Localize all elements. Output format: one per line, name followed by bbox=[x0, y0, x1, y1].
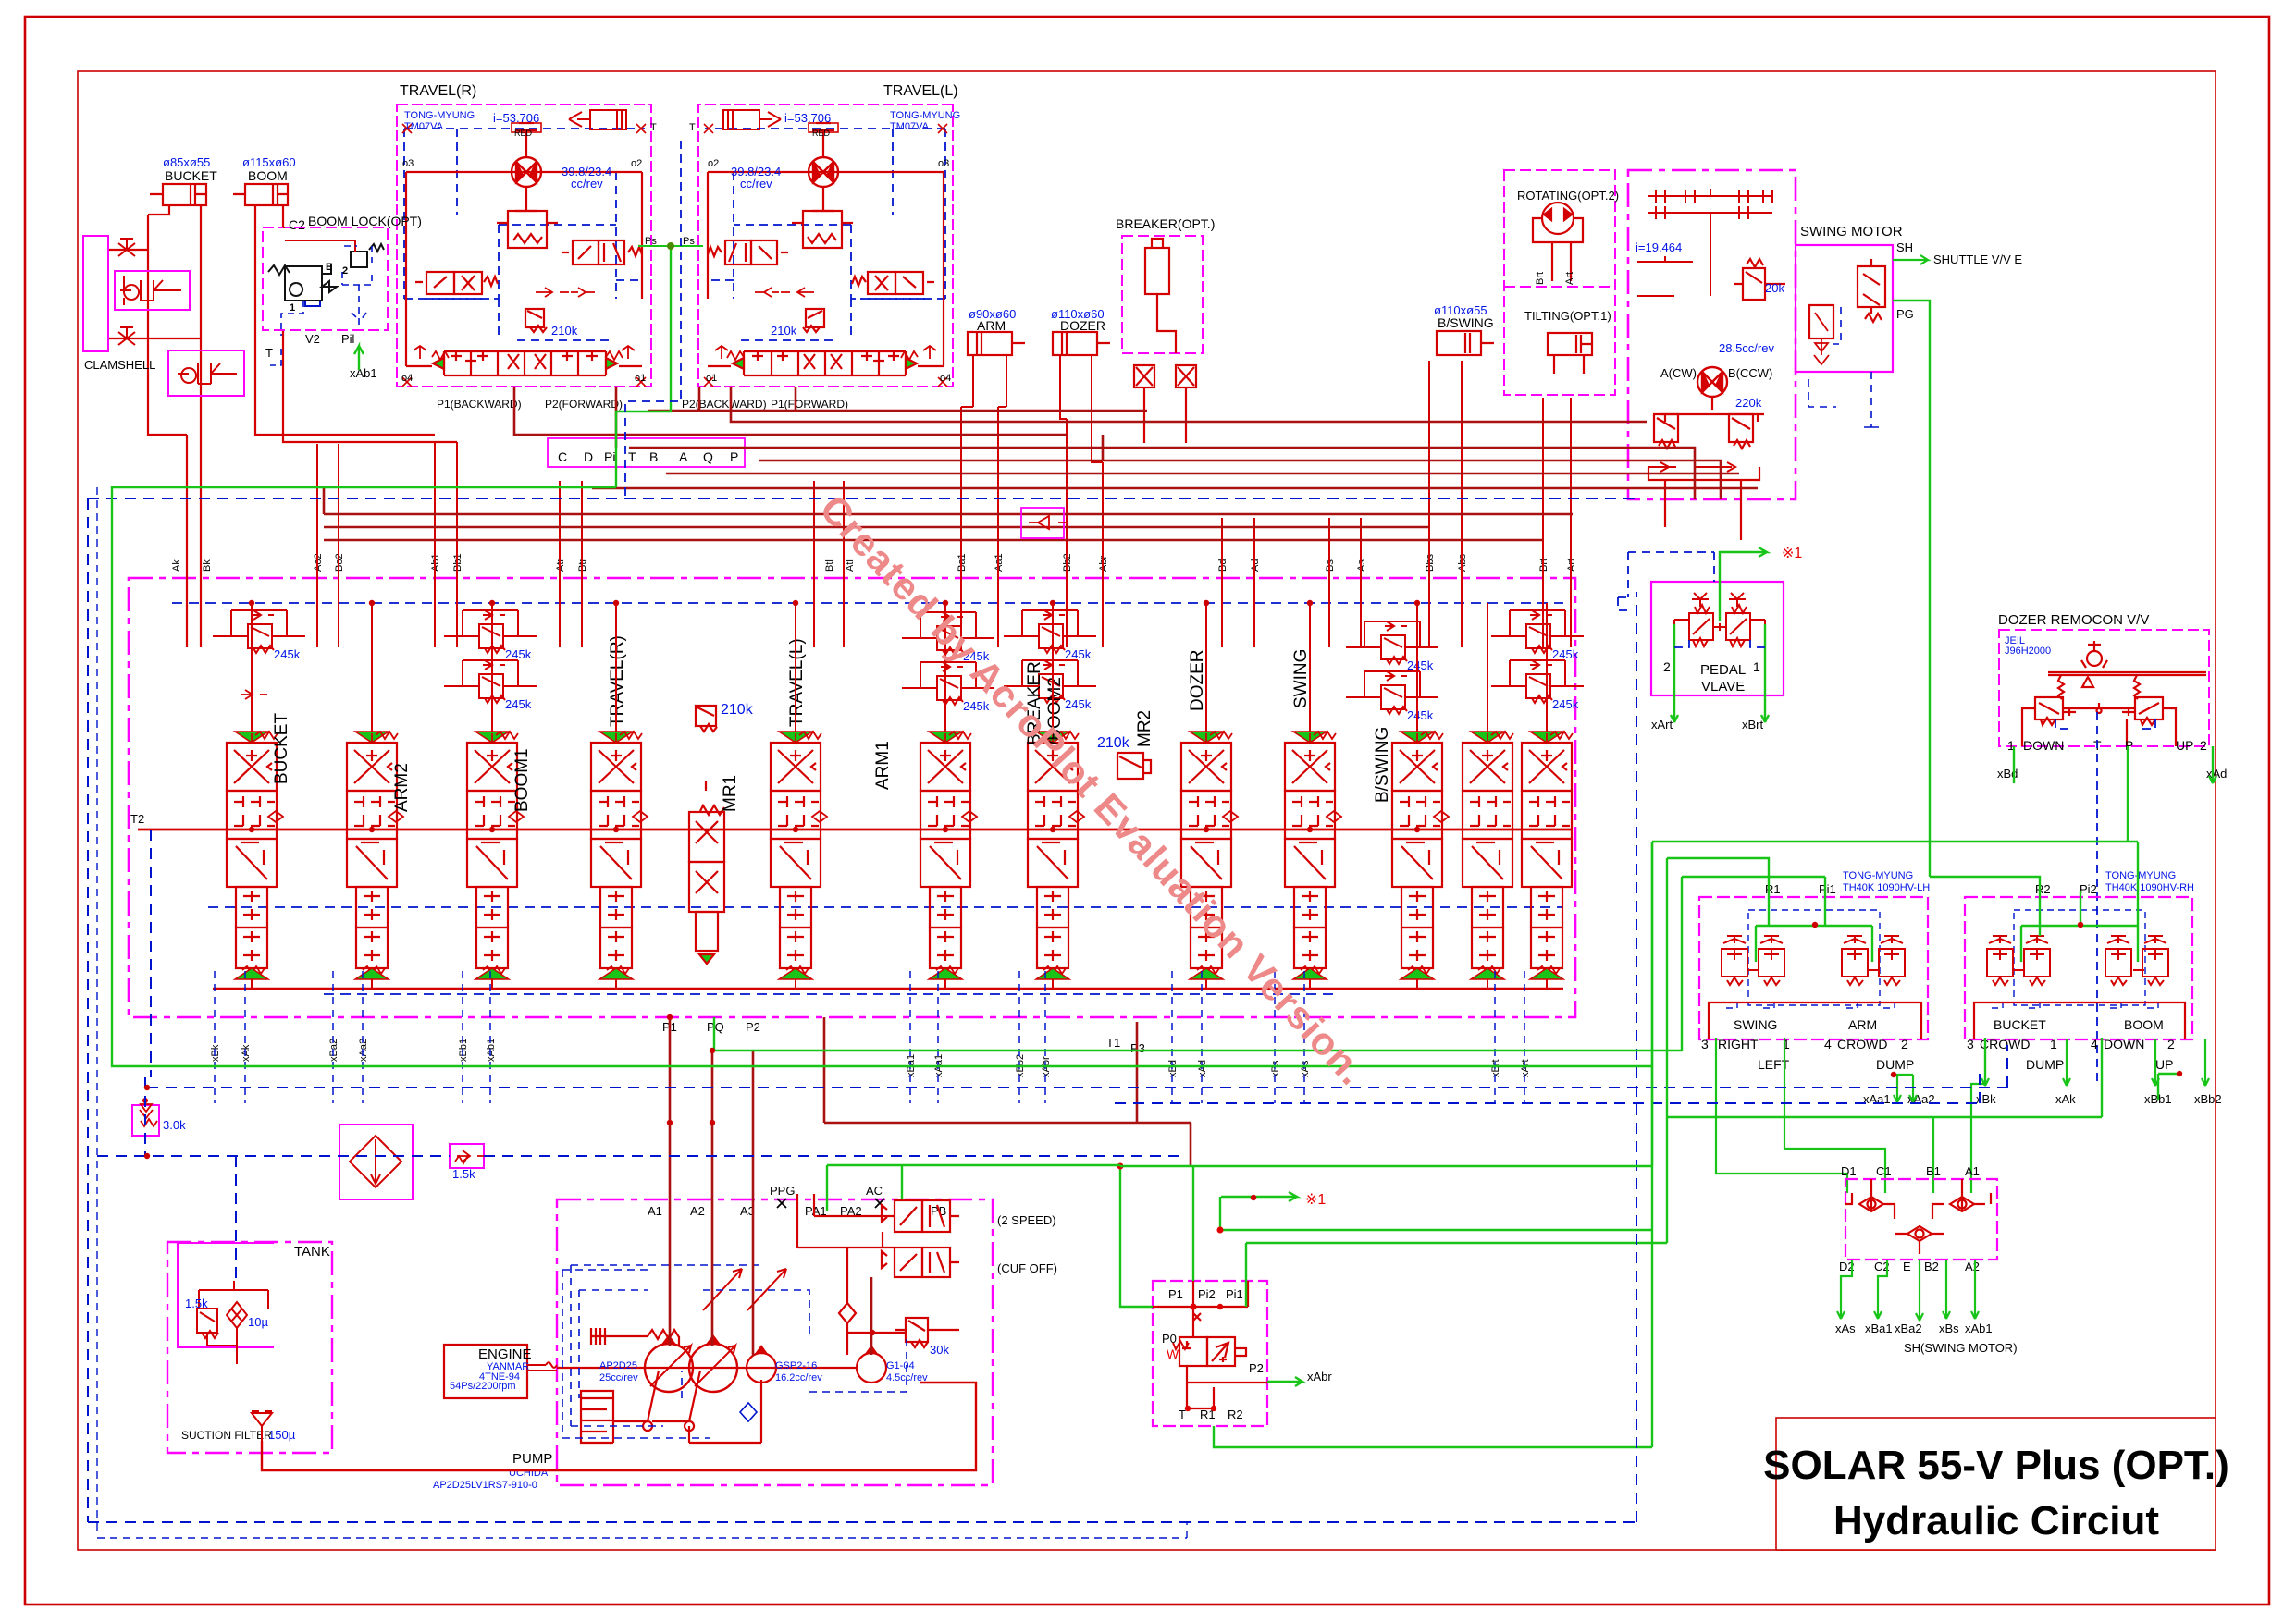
svg-text:210k: 210k bbox=[551, 324, 578, 338]
svg-text:T1: T1 bbox=[1106, 1036, 1120, 1050]
svg-text:1.5k: 1.5k bbox=[452, 1167, 475, 1181]
svg-text:E: E bbox=[326, 262, 332, 273]
svg-text:D: D bbox=[584, 449, 593, 464]
svg-text:SOLAR 55-V Plus (OPT.): SOLAR 55-V Plus (OPT.) bbox=[1763, 1443, 2229, 1488]
svg-text:210k: 210k bbox=[771, 324, 797, 338]
svg-text:D1: D1 bbox=[1841, 1164, 1857, 1178]
svg-text:ARM2: ARM2 bbox=[392, 763, 412, 812]
svg-text:Art: Art bbox=[1564, 272, 1575, 285]
svg-text:CROWD: CROWD bbox=[1837, 1037, 1887, 1051]
svg-text:A2: A2 bbox=[690, 1204, 705, 1218]
svg-text:o1: o1 bbox=[635, 373, 646, 384]
svg-text:P1: P1 bbox=[1168, 1287, 1183, 1301]
svg-text:DUMP: DUMP bbox=[2026, 1057, 2064, 1072]
svg-text:PPG: PPG bbox=[770, 1184, 795, 1198]
svg-text:3: 3 bbox=[1967, 1037, 1974, 1051]
svg-text:245k: 245k bbox=[505, 697, 532, 711]
svg-text:UP: UP bbox=[2176, 738, 2193, 753]
svg-text:C2: C2 bbox=[289, 217, 305, 232]
svg-text:A: A bbox=[679, 449, 688, 464]
svg-text:BREAKER(OPT.): BREAKER(OPT.) bbox=[1116, 216, 1215, 231]
svg-text:3: 3 bbox=[1701, 1037, 1709, 1051]
svg-text:PUMP: PUMP bbox=[512, 1451, 552, 1467]
svg-text:xBs: xBs bbox=[1270, 1060, 1281, 1077]
svg-text:2: 2 bbox=[2200, 738, 2207, 753]
svg-text:o3: o3 bbox=[402, 158, 414, 169]
svg-text:UP: UP bbox=[2155, 1057, 2173, 1072]
svg-text:P2: P2 bbox=[746, 1020, 760, 1034]
svg-text:ø115xø60: ø115xø60 bbox=[242, 155, 296, 169]
svg-text:ARM: ARM bbox=[977, 318, 1006, 333]
svg-text:245k: 245k bbox=[505, 647, 532, 661]
svg-text:20k: 20k bbox=[1765, 281, 1784, 295]
svg-text:SWING MOTOR: SWING MOTOR bbox=[1800, 224, 1903, 240]
svg-text:2: 2 bbox=[342, 265, 348, 277]
svg-text:Pi2: Pi2 bbox=[1198, 1287, 1216, 1301]
svg-text:TRAVEL(L): TRAVEL(L) bbox=[787, 638, 807, 727]
svg-text:P2(FORWARD): P2(FORWARD) bbox=[545, 398, 623, 411]
svg-text:30k: 30k bbox=[930, 1343, 949, 1357]
svg-text:SWING: SWING bbox=[1734, 1017, 1777, 1032]
svg-text:245k: 245k bbox=[1065, 697, 1092, 711]
svg-text:DOZER REMOCON V/V: DOZER REMOCON V/V bbox=[1998, 612, 2149, 628]
svg-text:C: C bbox=[558, 449, 567, 464]
svg-text:AP2D25: AP2D25 bbox=[599, 1360, 637, 1371]
svg-text:xArt: xArt bbox=[1651, 718, 1673, 732]
svg-text:TONG-MYUNG: TONG-MYUNG bbox=[1843, 870, 1913, 881]
svg-text:xArt: xArt bbox=[1520, 1059, 1531, 1077]
svg-text:2: 2 bbox=[1663, 659, 1671, 674]
svg-text:210k: 210k bbox=[721, 702, 754, 718]
svg-text:BOOM LOCK(OPT): BOOM LOCK(OPT) bbox=[308, 214, 422, 228]
svg-text:TM07VA: TM07VA bbox=[404, 121, 444, 132]
svg-text:DOZER: DOZER bbox=[1060, 318, 1105, 333]
svg-text:PEDAL: PEDAL bbox=[1700, 662, 1746, 678]
svg-text:C1: C1 bbox=[1876, 1164, 1892, 1178]
svg-text:xBa2: xBa2 bbox=[1895, 1322, 1922, 1335]
svg-text:150µ: 150µ bbox=[268, 1428, 296, 1442]
svg-text:245k: 245k bbox=[1552, 647, 1579, 661]
svg-text:2: 2 bbox=[1901, 1037, 1908, 1051]
svg-text:VLAVE: VLAVE bbox=[1701, 679, 1745, 695]
svg-text:BUCKET: BUCKET bbox=[272, 713, 291, 784]
svg-text:220k: 220k bbox=[1735, 396, 1762, 410]
svg-text:Bk: Bk bbox=[202, 559, 213, 572]
svg-text:T: T bbox=[1179, 1408, 1186, 1421]
svg-text:P2(BACKWARD): P2(BACKWARD) bbox=[682, 398, 767, 411]
svg-text:16.2cc/rev: 16.2cc/rev bbox=[775, 1372, 822, 1383]
svg-text:4: 4 bbox=[1824, 1037, 1832, 1051]
svg-text:xAb1: xAb1 bbox=[350, 366, 377, 380]
svg-text:BUCKET: BUCKET bbox=[165, 168, 217, 183]
svg-text:T: T bbox=[628, 449, 636, 464]
svg-text:1: 1 bbox=[1753, 659, 1760, 674]
svg-text:BUCKET: BUCKET bbox=[1994, 1017, 2046, 1032]
svg-text:T2: T2 bbox=[130, 812, 144, 826]
svg-text:Hydraulic Circiut: Hydraulic Circiut bbox=[1833, 1498, 2159, 1543]
svg-text:P1(FORWARD): P1(FORWARD) bbox=[771, 398, 848, 411]
svg-text:G1-04: G1-04 bbox=[886, 1360, 915, 1371]
svg-text:A2: A2 bbox=[1965, 1260, 1980, 1273]
svg-text:TONG-MYUNG: TONG-MYUNG bbox=[404, 110, 475, 121]
svg-text:TANK: TANK bbox=[294, 1244, 330, 1260]
svg-text:TH40K 1090HV-LH: TH40K 1090HV-LH bbox=[1843, 882, 1930, 893]
svg-text:P: P bbox=[730, 449, 738, 464]
svg-text:o2: o2 bbox=[708, 158, 719, 169]
svg-text:cc/rev: cc/rev bbox=[740, 177, 772, 191]
svg-text:(2 SPEED): (2 SPEED) bbox=[997, 1213, 1056, 1227]
svg-text:xBrt: xBrt bbox=[1742, 718, 1764, 732]
svg-text:TRAVEL(R): TRAVEL(R) bbox=[400, 83, 476, 99]
svg-text:CROWD: CROWD bbox=[1980, 1037, 2030, 1051]
svg-text:xAa2: xAa2 bbox=[358, 1039, 369, 1062]
svg-text:R1: R1 bbox=[1765, 882, 1781, 896]
svg-text:DUMP: DUMP bbox=[1876, 1057, 1914, 1072]
svg-text:Pi1: Pi1 bbox=[1819, 882, 1836, 896]
svg-text:xBb2: xBb2 bbox=[2194, 1092, 2222, 1106]
svg-text:xBa2: xBa2 bbox=[328, 1039, 339, 1062]
svg-text:B(CCW): B(CCW) bbox=[1728, 366, 1772, 380]
svg-text:xAb1: xAb1 bbox=[486, 1039, 497, 1062]
svg-text:ARM1: ARM1 bbox=[873, 741, 893, 790]
svg-text:Btl: Btl bbox=[824, 559, 835, 572]
svg-text:A(CW): A(CW) bbox=[1660, 366, 1697, 380]
svg-text:SWING: SWING bbox=[1291, 649, 1311, 708]
svg-text:54Ps/2200rpm: 54Ps/2200rpm bbox=[450, 1381, 516, 1392]
svg-text:AC: AC bbox=[866, 1184, 883, 1198]
svg-text:J96H2000: J96H2000 bbox=[2005, 646, 2051, 657]
svg-text:TM07VA: TM07VA bbox=[890, 121, 930, 132]
svg-text:SH(SWING MOTOR): SH(SWING MOTOR) bbox=[1904, 1341, 2018, 1355]
svg-text:P1(BACKWARD): P1(BACKWARD) bbox=[437, 398, 522, 411]
svg-text:B1: B1 bbox=[1926, 1164, 1941, 1178]
svg-text:ø85xø55: ø85xø55 bbox=[163, 155, 210, 169]
svg-text:xBrt: xBrt bbox=[1490, 1059, 1501, 1077]
svg-text:DOZER: DOZER bbox=[1188, 650, 1207, 712]
svg-text:o2: o2 bbox=[631, 158, 642, 169]
svg-text:xAb1: xAb1 bbox=[1965, 1322, 1993, 1335]
svg-text:E: E bbox=[1903, 1260, 1911, 1273]
svg-text:RED: RED bbox=[812, 129, 831, 138]
svg-text:i=53.706: i=53.706 bbox=[493, 111, 539, 125]
svg-text:245k: 245k bbox=[1407, 658, 1434, 672]
svg-text:TILTING(OPT.1): TILTING(OPT.1) bbox=[1524, 309, 1611, 323]
svg-text:B2: B2 bbox=[1924, 1260, 1939, 1273]
svg-text:※1: ※1 bbox=[1782, 546, 1802, 561]
svg-text:PQ: PQ bbox=[707, 1020, 724, 1034]
svg-text:245k: 245k bbox=[274, 647, 301, 661]
svg-text:1: 1 bbox=[2050, 1037, 2057, 1051]
svg-text:xBs: xBs bbox=[1939, 1322, 1959, 1335]
svg-text:xAk: xAk bbox=[2055, 1092, 2076, 1106]
svg-text:Pil: Pil bbox=[341, 332, 355, 346]
svg-text:xAk: xAk bbox=[241, 1044, 252, 1062]
svg-text:P0: P0 bbox=[1162, 1332, 1177, 1346]
svg-text:1: 1 bbox=[290, 302, 295, 314]
svg-text:W: W bbox=[1167, 1346, 1179, 1361]
svg-text:TONG-MYUNG: TONG-MYUNG bbox=[890, 110, 960, 121]
svg-text:28.5cc/rev: 28.5cc/rev bbox=[1719, 341, 1774, 355]
svg-text:R2: R2 bbox=[1228, 1408, 1243, 1421]
svg-text:4: 4 bbox=[2091, 1037, 2098, 1051]
svg-text:TH40K 1090HV-RH: TH40K 1090HV-RH bbox=[2105, 882, 2194, 893]
svg-text:A1: A1 bbox=[1965, 1164, 1980, 1178]
svg-text:xBk: xBk bbox=[210, 1044, 221, 1062]
svg-text:B/SWING: B/SWING bbox=[1438, 315, 1494, 330]
svg-text:P: P bbox=[2125, 738, 2133, 753]
svg-text:AP2D25LV1RS7-910-0: AP2D25LV1RS7-910-0 bbox=[433, 1480, 537, 1491]
svg-text:245k: 245k bbox=[1552, 697, 1579, 711]
svg-text:2: 2 bbox=[2167, 1037, 2175, 1051]
svg-text:1.5k: 1.5k bbox=[185, 1297, 208, 1310]
svg-text:B/SWING: B/SWING bbox=[1373, 727, 1392, 803]
svg-text:SHUTTLE V/V E: SHUTTLE V/V E bbox=[1933, 252, 2022, 266]
svg-text:25cc/rev: 25cc/rev bbox=[599, 1372, 638, 1383]
svg-text:T: T bbox=[650, 122, 657, 133]
svg-text:245k: 245k bbox=[1065, 647, 1092, 661]
svg-text:TONG-MYUNG: TONG-MYUNG bbox=[2105, 870, 2176, 881]
svg-text:MR2: MR2 bbox=[1135, 710, 1154, 747]
svg-text:BOOM: BOOM bbox=[248, 168, 288, 183]
svg-text:MR1: MR1 bbox=[721, 775, 740, 812]
svg-text:GSP2-16: GSP2-16 bbox=[775, 1360, 817, 1371]
svg-text:xAbr: xAbr bbox=[1307, 1370, 1332, 1383]
svg-text:Pi: Pi bbox=[604, 449, 615, 464]
svg-text:Ak: Ak bbox=[171, 559, 182, 572]
svg-text:DOWN: DOWN bbox=[2104, 1037, 2144, 1051]
svg-text:xBb1: xBb1 bbox=[458, 1039, 469, 1062]
svg-text:o4: o4 bbox=[940, 373, 951, 384]
svg-text:BOOM1: BOOM1 bbox=[512, 748, 532, 812]
svg-text:B: B bbox=[649, 449, 658, 464]
svg-text:PG: PG bbox=[1896, 307, 1914, 321]
svg-text:V2: V2 bbox=[305, 332, 320, 346]
svg-text:R2: R2 bbox=[2035, 882, 2051, 896]
svg-text:xBa1: xBa1 bbox=[1865, 1322, 1893, 1335]
svg-text:T: T bbox=[689, 122, 696, 133]
svg-text:(CUF OFF): (CUF OFF) bbox=[997, 1261, 1057, 1275]
svg-text:※1: ※1 bbox=[1305, 1192, 1326, 1208]
svg-text:xAd: xAd bbox=[1197, 1060, 1208, 1077]
svg-text:i=19.464: i=19.464 bbox=[1636, 240, 1682, 254]
svg-text:A1: A1 bbox=[648, 1204, 662, 1218]
svg-text:o4: o4 bbox=[401, 373, 413, 384]
svg-text:DOWN: DOWN bbox=[2023, 738, 2064, 753]
svg-text:xAs: xAs bbox=[1835, 1322, 1856, 1335]
svg-text:TRAVEL(L): TRAVEL(L) bbox=[883, 83, 958, 99]
svg-text:210k: 210k bbox=[1097, 735, 1130, 751]
svg-text:i=53.706: i=53.706 bbox=[784, 111, 831, 125]
svg-text:P2: P2 bbox=[1249, 1361, 1264, 1375]
svg-text:RIGHT: RIGHT bbox=[1718, 1037, 1759, 1051]
svg-text:RED: RED bbox=[514, 129, 533, 138]
svg-text:o1: o1 bbox=[706, 373, 717, 384]
svg-text:Q: Q bbox=[703, 449, 713, 464]
svg-text:3.0k: 3.0k bbox=[163, 1118, 186, 1132]
svg-text:cc/rev: cc/rev bbox=[571, 177, 603, 191]
svg-text:Pi1: Pi1 bbox=[1226, 1287, 1243, 1301]
svg-text:CLAMSHELL: CLAMSHELL bbox=[84, 358, 155, 372]
svg-text:ENGINE: ENGINE bbox=[478, 1346, 532, 1362]
svg-text:BOOM: BOOM bbox=[2124, 1017, 2164, 1032]
svg-text:Brt: Brt bbox=[1535, 272, 1546, 285]
svg-text:ARM: ARM bbox=[1848, 1017, 1877, 1032]
svg-text:245k: 245k bbox=[1407, 708, 1434, 722]
svg-text:Pi2: Pi2 bbox=[2080, 882, 2097, 896]
svg-text:10µ: 10µ bbox=[248, 1315, 268, 1329]
svg-text:xAs: xAs bbox=[1300, 1060, 1311, 1077]
svg-text:xBd: xBd bbox=[1167, 1060, 1179, 1077]
svg-text:T: T bbox=[265, 346, 273, 360]
svg-text:SUCTION FILTER: SUCTION FILTER bbox=[181, 1429, 272, 1442]
svg-text:o3: o3 bbox=[938, 158, 949, 169]
svg-text:ROTATING(OPT.2): ROTATING(OPT.2) bbox=[1517, 189, 1619, 203]
svg-text:SH: SH bbox=[1896, 240, 1913, 254]
svg-text:TRAVEL(R): TRAVEL(R) bbox=[608, 635, 627, 727]
